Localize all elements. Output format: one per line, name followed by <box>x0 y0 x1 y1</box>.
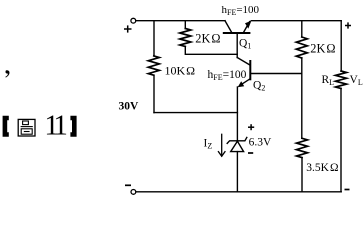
input - terminal circle <box>131 190 136 195</box>
svg-text:30V: 30V <box>119 101 140 113</box>
resistor RL <box>336 71 347 89</box>
figure caption bracket 【 <box>3 116 9 137</box>
wire: 2K-left bottom lead down then right to Q1 base <box>185 47 237 55</box>
wire: RL bottom down to bottom rail corner <box>340 89 342 192</box>
current Iz arrow <box>221 134 223 156</box>
wire: divider middle segment through base node down to 3.5K <box>301 58 303 138</box>
label: - (zener) <box>248 152 253 154</box>
transistor Q1 emitter arrowhead <box>245 21 251 29</box>
resistor 2KΩ (left) <box>180 29 191 47</box>
svg-text:RL: RL <box>322 74 335 87</box>
svg-text:11: 11 <box>44 109 68 141</box>
wire: horizontal from corner to zener node <box>154 112 237 114</box>
figure caption character 圖 <box>18 119 35 136</box>
label: - (input bottom) <box>125 184 131 186</box>
zener diode D1 cathode bar with wings <box>227 137 247 143</box>
svg-text:2KΩ: 2KΩ <box>310 42 335 56</box>
transistor Q2 emitter diagonal <box>241 79 250 85</box>
svg-text:hFE=100: hFE=100 <box>222 4 260 17</box>
label: + (zener) <box>248 124 254 130</box>
svg-text:3.5KΩ: 3.5KΩ <box>306 162 338 174</box>
wire: Q2 emitter down to zener <box>236 87 238 140</box>
resistor 3.5KΩ <box>297 138 308 157</box>
svg-text:VL: VL <box>350 74 363 87</box>
wire: 2K-left top lead from rail <box>184 21 186 29</box>
resistor 10KΩ <box>148 56 159 75</box>
wire: zener anode down to bottom rail <box>236 152 238 192</box>
comma punctuation <box>5 70 9 77</box>
wire: 10K bottom down to corner <box>153 75 155 112</box>
input + terminal circle <box>131 18 136 23</box>
transistor Q2 collector diagonal <box>237 58 249 65</box>
svg-text:10KΩ: 10KΩ <box>165 64 196 78</box>
wire: Q2 base horizontal to divider node <box>250 73 301 75</box>
figure caption bracket 】 <box>70 116 76 137</box>
wire: 3.5K bottom to bottom rail <box>301 158 303 192</box>
svg-text:Q2: Q2 <box>253 80 265 93</box>
transistor Q1 base bar (horizontal) <box>224 32 250 34</box>
transistor Q1 emitter diagonal with arrow to right rail <box>243 22 249 33</box>
wire: bottom rail <box>136 191 341 193</box>
svg-text:IZ: IZ <box>204 138 213 151</box>
wire: top rail left (input + to Q1 collector) <box>136 20 225 22</box>
wire: divider branch from top rail down to 2K-right <box>301 21 303 37</box>
transistor Q2 emitter arrowhead <box>238 81 245 87</box>
svg-text:Q1: Q1 <box>239 38 251 51</box>
label: + (input top) <box>124 25 132 32</box>
transistor Q2 base bar (vertical) <box>249 61 251 79</box>
label: + (output top right) <box>345 22 351 28</box>
wire: left branch down to 10K top <box>153 21 155 56</box>
wire: right branch from top rail corner down to RL <box>340 21 342 71</box>
transistor Q1 collector diagonal from left rail <box>225 21 232 33</box>
label: - (output bottom right) <box>345 189 350 191</box>
svg-text:6.3V: 6.3V <box>249 137 272 149</box>
transistor Q1 base vertical down <box>236 33 238 58</box>
resistor 2KΩ (right) <box>296 37 307 58</box>
wire: top rail right (Q1 emitter to right corner) <box>251 20 341 22</box>
svg-text:2KΩ: 2KΩ <box>195 32 220 46</box>
zener diode D1 anode triangle <box>231 141 244 151</box>
svg-text:hFE=100: hFE=100 <box>208 69 247 82</box>
